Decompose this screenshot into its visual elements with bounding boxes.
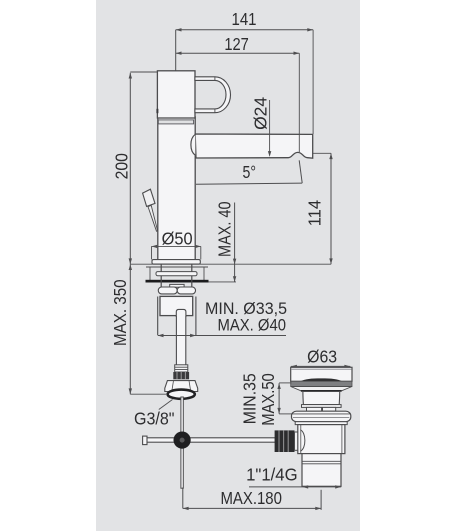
svg-text:200: 200 (112, 153, 132, 180)
svg-text:1"1/4G: 1"1/4G (246, 465, 298, 485)
dim MAX.180 right tick (320, 490, 322, 510)
dim MIN.35 MAX.50 ticks (279, 382, 291, 384)
threaded shank lower body (160, 296, 193, 315)
linkage rod left end cap (143, 436, 147, 445)
extension line 141 right (to spout tip) (312, 30, 314, 134)
junction ring between head and body (158, 120, 193, 124)
side lever stem (148, 205, 158, 231)
G3/8 hex nut (165, 381, 198, 392)
sealing washer under deck (156, 272, 197, 276)
svg-text:5°: 5° (243, 162, 257, 182)
dim Ø63 dimension line (291, 365, 350, 367)
pivot mark on head left edge (156, 109, 158, 113)
dim MAX 40 vertical line (234, 203, 236, 282)
supply hose top cap (176, 309, 186, 316)
svg-text:MIN.35: MIN.35 (240, 373, 260, 424)
faucet head (cartridge cover) (157, 71, 195, 118)
svg-text:114: 114 (305, 200, 325, 227)
dim 114 vertical line (330, 153, 332, 264)
svg-text:Ø24: Ø24 (251, 97, 271, 130)
dim MIN/MAX hole diameter line (158, 335, 286, 337)
dim Ø50 extension ticks (151, 246, 153, 259)
dim MIN.35 MAX.50 vertical line (278, 383, 280, 414)
svg-text:MAX. 350: MAX. 350 (110, 279, 130, 346)
dim Ø50 dimension line (152, 245, 201, 247)
drain: knurled rod coupler (275, 430, 295, 452)
svg-text:MAX.50: MAX.50 (258, 373, 278, 426)
dim 127 horizontal dimension line (176, 52, 300, 54)
dim 141 horizontal dimension line (176, 29, 313, 31)
hose end ribs (175, 365, 188, 372)
mounting nut lobes (158, 287, 177, 294)
horizontal linkage rod (144, 438, 276, 442)
countertop deck slab (146, 266, 208, 268)
countertop dark section band (146, 280, 209, 283)
svg-text:MAX. Ø40: MAX. Ø40 (218, 316, 287, 335)
pop-up control rod (181, 397, 183, 488)
drain shoulder (302, 405, 342, 408)
collar above mounting nut (170, 284, 184, 287)
dim MAX.180 line (183, 507, 321, 509)
supply hose tube (176, 316, 185, 365)
drain flange bun (292, 411, 351, 422)
svg-text:127: 127 (224, 34, 249, 54)
svg-text:G3/8": G3/8" (134, 409, 175, 429)
mounting hole edge lines in deck (157, 297, 159, 336)
dim MAX 350 bottom tick (130, 393, 166, 395)
dim 127 arrowheads (176, 52, 300, 55)
drain lugs (307, 407, 322, 411)
drain flange lower ring (295, 422, 347, 425)
dim 141 arrowheads (176, 28, 313, 31)
flange-bottom extension line to dim 114 (130, 263, 331, 265)
threaded shank upper (between flange and nut) (160, 264, 162, 287)
drain tailpiece (302, 454, 341, 487)
G3/8 nut bottom opening (168, 390, 195, 399)
drain body (298, 425, 345, 454)
ball joint (174, 432, 191, 449)
knurled collar (173, 372, 189, 379)
svg-text:MAX. 40: MAX. 40 (214, 201, 234, 257)
loop handle tangent ticks (214, 77, 216, 81)
drain cap cylinder (291, 367, 352, 381)
drawing panel background (96, 0, 360, 531)
G3/8 pointer line (159, 400, 173, 410)
spout tube (195, 134, 313, 158)
dim 200 vertical line (129, 73, 131, 265)
dim MAX.180 left tick (182, 488, 184, 509)
drain rim flare skirt (291, 387, 352, 391)
svg-text:141: 141 (232, 9, 257, 29)
side lever paddle (143, 189, 155, 206)
drain cap dome sliver (301, 378, 343, 381)
dim 1"1/4G line (249, 486, 341, 488)
deck-bottom extension line (209, 281, 237, 283)
svg-text:MAX.180: MAX.180 (220, 488, 282, 508)
svg-text:Ø63: Ø63 (307, 346, 337, 366)
coupler bulge into body (300, 430, 305, 451)
extension line 127 right (to aerator) (298, 53, 300, 152)
spout socket bulge on body (191, 134, 195, 155)
drain neck (303, 392, 340, 405)
5deg angled tip line (299, 160, 302, 183)
dim 114 top extension from spout tip (313, 152, 331, 154)
coupler ring (295, 432, 301, 450)
loop handle (195, 77, 231, 113)
dim MAX 350 vertical line (129, 264, 131, 394)
centerline extension above head (175, 30, 177, 71)
base flange (152, 260, 200, 265)
dim 200 top tick (130, 71, 157, 73)
drain cap gray band (291, 381, 352, 386)
svg-text:Ø50: Ø50 (162, 228, 193, 248)
faucet body cylinder (158, 117, 195, 260)
dim Ø24 leader line (269, 100, 271, 156)
5deg reference line (196, 183, 302, 184)
